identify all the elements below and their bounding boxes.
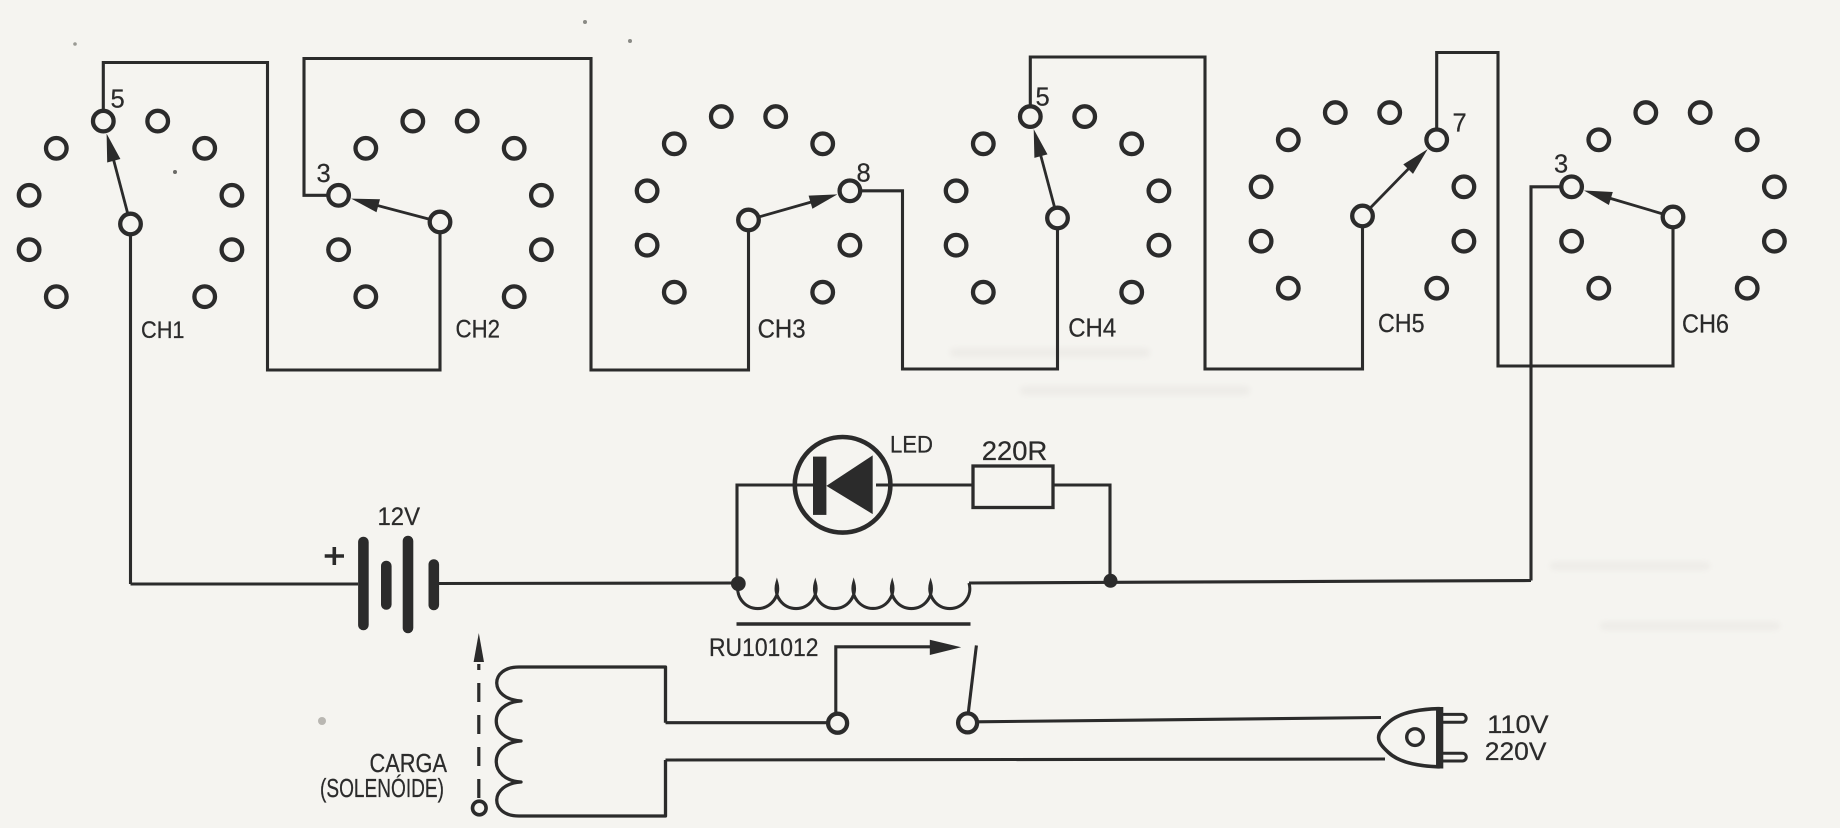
- CH2 contact at -45 deg: [356, 138, 377, 159]
- AC plug P1: [1379, 707, 1467, 769]
- CH6 contact at -135 deg: [1589, 278, 1610, 299]
- CH3 contact at 135 deg: [812, 282, 833, 303]
- CH2 contact at -135 deg: [356, 286, 377, 307]
- plug prong bottom: [1443, 753, 1466, 761]
- wire coil to CH6 branch: [969, 581, 1531, 584]
- relay actuation arrow: [836, 647, 931, 712]
- CH6 pole (common): [1663, 207, 1684, 228]
- CH2 contact at -105 deg: [328, 239, 349, 260]
- CH5 contact at -135 deg: [1278, 278, 1299, 299]
- wire node A up to LED: [737, 485, 813, 583]
- battery plus sign: [325, 547, 344, 565]
- svg-text:220R: 220R: [982, 436, 1048, 466]
- wire battery to coil: [439, 581, 739, 585]
- wire LED to resistor: [876, 483, 973, 486]
- wire resistor down to node B: [1053, 485, 1110, 578]
- svg-text:8: 8: [857, 160, 871, 188]
- CH6 contact at -105 deg: [1561, 231, 1582, 252]
- CH1 contact at -105 deg: [19, 239, 40, 260]
- svg-text:12V: 12V: [378, 503, 421, 531]
- CH2 contact at 135 deg: [504, 286, 525, 307]
- CH4 contact at 105 deg: [1149, 235, 1170, 256]
- CH1 contact at 45 deg: [194, 138, 215, 159]
- CH3 contact at 105 deg: [840, 235, 861, 256]
- wire CH6 contact 3 down to supply line: [1531, 187, 1561, 581]
- CH4 contact at -105 deg: [946, 235, 967, 256]
- CH5 contact at 75 deg: [1454, 177, 1475, 198]
- svg-text:CH4: CH4: [1068, 313, 1116, 343]
- LED D1: [795, 437, 891, 533]
- svg-text:RU101012: RU101012: [709, 634, 819, 662]
- rotary switch CH2: [317, 111, 552, 344]
- CH6 contact at 105 deg: [1764, 231, 1785, 252]
- CH4 contact at -15 deg: [1020, 106, 1041, 127]
- wire CH5 contact 7 to CH6 pole: [1437, 53, 1673, 367]
- plug prong top: [1443, 714, 1466, 722]
- svg-text:5: 5: [111, 86, 125, 114]
- junction node B (resistor drop): [1104, 574, 1118, 588]
- CH1 contact at -45 deg: [46, 138, 67, 159]
- svg-text:CH6: CH6: [1682, 309, 1729, 339]
- CH5 contact at -105 deg: [1251, 231, 1272, 252]
- CH1 contact at -75 deg: [19, 185, 40, 206]
- CH2 contact at 75 deg: [531, 185, 552, 206]
- CH6 contact at 15 deg: [1690, 102, 1711, 123]
- scan artifact smudges: [950, 348, 1780, 630]
- paper speck: [318, 717, 326, 725]
- relay contact left: [828, 714, 847, 733]
- CH2 contact at -15 deg: [403, 111, 424, 132]
- CH2 contact at 15 deg: [457, 111, 478, 132]
- CH4 wiper arrow: [1040, 152, 1055, 206]
- CH3 wiper arrow: [760, 201, 815, 217]
- svg-text:3: 3: [1554, 151, 1568, 179]
- solenoid L1 (load) outline: [496, 667, 665, 816]
- CH6 wiper arrow: [1607, 197, 1662, 213]
- CH2 contact at 45 deg: [504, 138, 525, 159]
- relay switch blade: [968, 645, 976, 711]
- wire relay to plug (top): [977, 718, 1381, 722]
- CH5 wiper arrow: [1371, 166, 1411, 207]
- svg-text:CH2: CH2: [456, 316, 501, 344]
- svg-text:CH1: CH1: [141, 317, 185, 344]
- CH6 contact at 135 deg: [1737, 278, 1758, 299]
- resistor R1 220R: [973, 466, 1053, 508]
- wire CH2 contact 3 to CH3 pole: [304, 59, 749, 371]
- CH4 contact at -135 deg: [973, 282, 994, 303]
- plunger end circle: [473, 801, 487, 815]
- CH4 contact at -45 deg: [973, 134, 994, 155]
- rotary switch CH6: [1554, 102, 1785, 338]
- CH5 contact at -15 deg: [1325, 102, 1346, 123]
- relay contact right: [958, 713, 977, 732]
- CH4 contact at 135 deg: [1121, 282, 1142, 303]
- CH1 wiper arrow: [113, 157, 128, 213]
- CH3 pole (common): [738, 210, 759, 231]
- CH5 contact at -45 deg: [1278, 130, 1299, 151]
- CH2 wiper arrow: [374, 205, 428, 219]
- CH5 contact at -75 deg: [1251, 177, 1272, 198]
- svg-text:CH3: CH3: [758, 314, 806, 344]
- CH4 contact at 75 deg: [1149, 181, 1170, 202]
- svg-text:LED: LED: [890, 431, 933, 458]
- CH1 contact at 105 deg: [222, 239, 243, 260]
- CH3 contact at -45 deg: [664, 134, 685, 155]
- CH3 contact at -135 deg: [664, 282, 685, 303]
- CH3 contact at 45 deg: [812, 134, 833, 155]
- CH2 pole (common): [430, 212, 451, 233]
- CH5 pole (common): [1352, 206, 1373, 227]
- rotary switch CH1: [19, 86, 242, 345]
- CH4 contact at 45 deg: [1121, 134, 1142, 155]
- wire battery line left: [131, 582, 359, 585]
- CH4 pole (common): [1047, 208, 1068, 229]
- wire CH1 pole down to battery line: [129, 235, 132, 585]
- wire solenoid to plug (bottom): [666, 759, 1386, 760]
- rotary switch CH5: [1251, 102, 1474, 338]
- CH6 contact at 75 deg: [1764, 177, 1785, 198]
- junction node A (coil left): [731, 576, 746, 591]
- CH1 pole (common): [120, 214, 141, 235]
- CH3 contact at -75 deg: [637, 181, 658, 202]
- svg-text:220V: 220V: [1485, 738, 1547, 766]
- CH1 contact at 15 deg: [147, 111, 168, 132]
- CH6 contact at -45 deg: [1589, 130, 1610, 151]
- CH1 contact at -135 deg: [46, 286, 67, 307]
- relay coil K1 winding: [738, 583, 970, 609]
- CH3 contact at -105 deg: [637, 235, 658, 256]
- CH4 contact at -75 deg: [946, 181, 967, 202]
- wire CH1 contact 5 to CH2 pole: [103, 63, 440, 371]
- svg-text:(SOLENÓIDE): (SOLENÓIDE): [320, 773, 444, 803]
- CH5 contact at 135 deg: [1426, 278, 1447, 299]
- svg-text:7: 7: [1453, 110, 1467, 138]
- CH3 contact at 15 deg: [765, 106, 786, 127]
- CH6 contact at -75 deg: [1561, 177, 1582, 198]
- CH4 contact at 15 deg: [1074, 106, 1095, 127]
- CH5 contact at 15 deg: [1379, 102, 1400, 123]
- rotary switch CH4: [946, 84, 1169, 343]
- CH3 contact at -15 deg: [711, 106, 732, 127]
- relay coil core bar: [737, 622, 971, 625]
- CH6 contact at -15 deg: [1636, 102, 1657, 123]
- svg-text:110V: 110V: [1487, 711, 1549, 739]
- svg-text:3: 3: [317, 160, 331, 188]
- battery B1 12V: [363, 541, 433, 628]
- CH6 contact at 45 deg: [1737, 130, 1758, 151]
- rotary switch CH3: [637, 106, 871, 343]
- CH2 contact at 105 deg: [531, 239, 552, 260]
- wire solenoid to relay contact: [666, 721, 830, 724]
- CH2 contact at -75 deg: [328, 185, 349, 206]
- CH5 contact at 105 deg: [1454, 231, 1475, 252]
- CH1 contact at -15 deg: [93, 111, 114, 132]
- plunger dashed arrow: [477, 664, 480, 798]
- CH3 contact at 75 deg: [840, 181, 861, 202]
- svg-text:CH5: CH5: [1378, 308, 1425, 338]
- CH1 contact at 75 deg: [222, 185, 243, 206]
- wire CH3 contact 8 to CH4 pole: [860, 191, 1057, 369]
- CH5 contact at 45 deg: [1426, 130, 1447, 151]
- CH1 contact at 135 deg: [194, 286, 215, 307]
- wire CH4 contact 5 to CH5 pole: [1030, 57, 1362, 369]
- svg-text:5: 5: [1036, 84, 1050, 112]
